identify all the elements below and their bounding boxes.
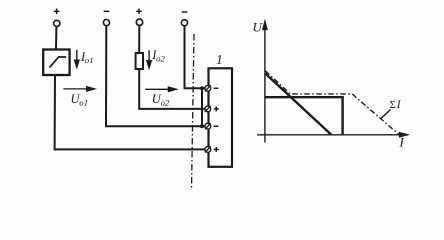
terminal T3 circle — [136, 19, 142, 25]
wire T1 to box — [55, 27, 57, 50]
terminal T1 plus sign — [54, 9, 60, 15]
source box U1 (limiter characteristic) — [43, 50, 69, 76]
load block 1 — [209, 68, 233, 167]
svg-text:1: 1 — [216, 52, 223, 67]
svg-text:o1: o1 — [79, 97, 88, 107]
svg-text:U: U — [253, 20, 264, 35]
resistor R (internal resistance) — [136, 53, 143, 69]
junction dot on W4 — [200, 86, 204, 90]
voltage arrow Uo2 — [145, 87, 176, 91]
characteristic curve inside box — [50, 57, 67, 68]
voltage arrow Uo1 — [63, 87, 94, 91]
svg-text:Σ: Σ — [390, 99, 396, 111]
current arrow Io1 — [75, 50, 79, 68]
block terminal circle 3 (slashed) — [205, 123, 211, 129]
svg-text:o2: o2 — [161, 97, 170, 107]
plus sign at block terminal 4 — [214, 147, 219, 152]
terminal T2 minus sign — [104, 10, 110, 12]
minus sign at block terminal 3 — [214, 125, 219, 127]
terminal T2 circle — [103, 20, 109, 26]
terminal T3 plus sign — [136, 9, 142, 15]
wire W4: T4 down and right to block terminal 1 — [185, 26, 206, 88]
block terminal circle 4 (slashed) — [205, 146, 211, 152]
characteristic source 1: constant voltage with current limit — [266, 97, 343, 134]
terminal T4 circle — [181, 20, 187, 26]
block terminal circle 1 (slashed) — [205, 85, 211, 91]
characteristic source 2: resistive droop diagonal — [265, 74, 331, 135]
boundary dash-dot line — [192, 34, 195, 189]
graph x-axis I — [257, 133, 408, 137]
graph y-axis U — [263, 22, 267, 143]
wire T3 to resistor — [138, 25, 140, 53]
wire W1: box output down and right to block terminal 4 — [55, 75, 205, 149]
leader line from ΣI label to curve — [381, 110, 391, 119]
wire W3: resistor down and right to block terminal 2 — [139, 69, 205, 109]
current arrow Io2 — [147, 50, 151, 68]
terminal T4 minus sign — [182, 11, 188, 13]
bus wire joining W4 and W2 — [201, 88, 203, 126]
svg-text:o2: o2 — [156, 53, 165, 63]
minus sign at block terminal 1 — [214, 87, 219, 89]
junction dot on W2 — [200, 124, 204, 128]
wire W2: T2 down and right to block terminal 3 — [106, 26, 205, 127]
svg-text:I: I — [399, 135, 405, 150]
terminal T1 circle — [54, 20, 60, 26]
plus sign at block terminal 2 — [214, 106, 219, 111]
svg-text:o1: o1 — [85, 55, 94, 65]
summed characteristic curve ΣI (dash-dot) — [265, 71, 399, 135]
block terminal circle 2 (slashed) — [205, 106, 211, 112]
